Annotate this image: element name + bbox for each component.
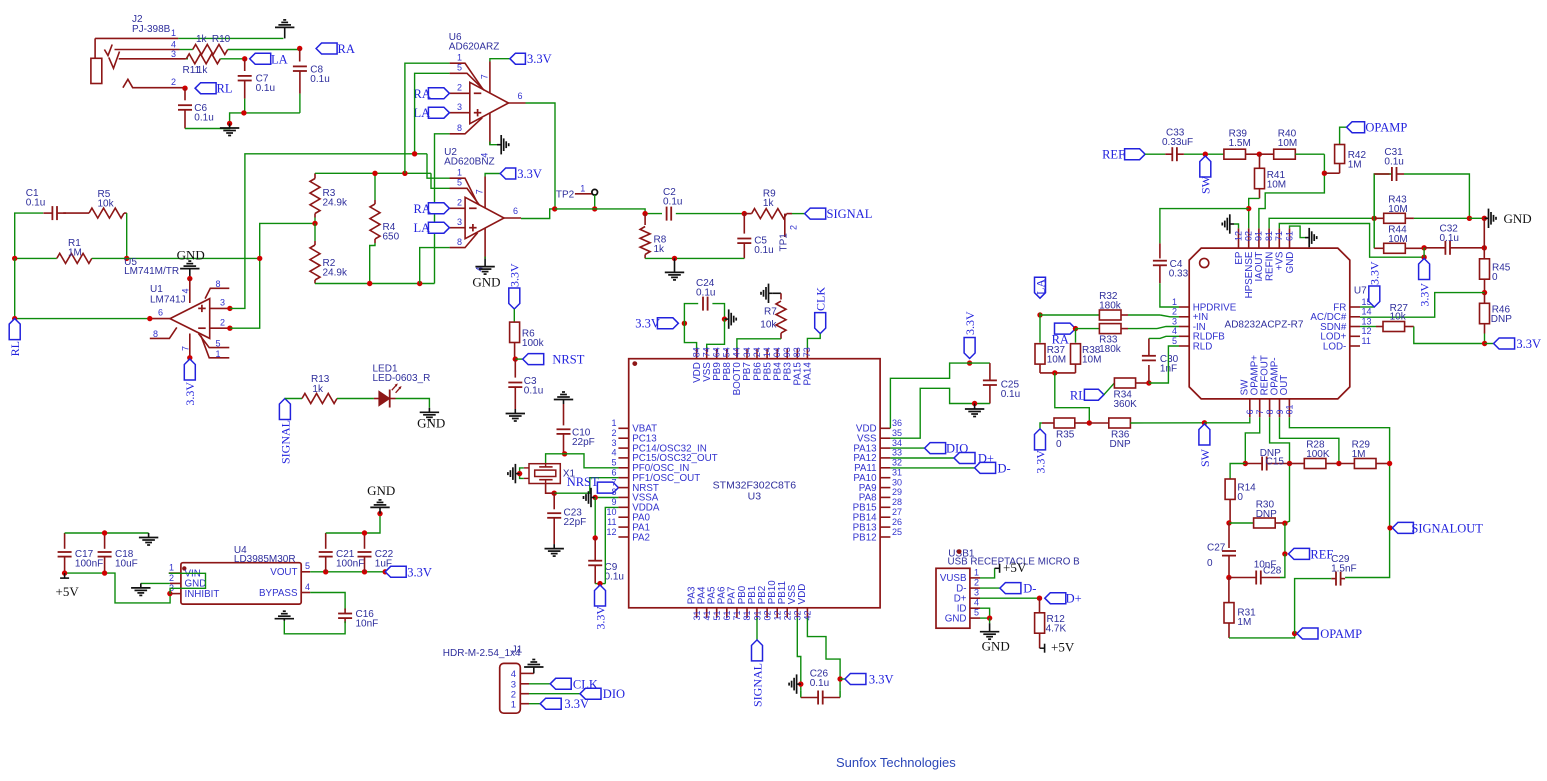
junction REF tag: [1282, 551, 1287, 556]
svg-text:24.9k: 24.9k: [323, 198, 348, 209]
junction R4 bottom: [367, 281, 372, 286]
hierarchical label D- at USB: [980, 587, 1000, 589]
junction NRST node: [513, 356, 518, 361]
junction R35/R36 node: [1087, 420, 1092, 425]
power +5V below R12: [1040, 647, 1045, 649]
svg-text:29: 29: [892, 487, 902, 497]
svg-text:0.1u: 0.1u: [663, 197, 682, 208]
U6 pin 6 output stub: [509, 102, 526, 104]
svg-text:BYPASS: BYPASS: [259, 588, 298, 599]
junction R9/C5 node: [742, 211, 747, 216]
ground left of VSSA: [595, 497, 618, 499]
U7 pin 17 +VS: [1278, 228, 1280, 248]
resistor R41 10M: [1259, 154, 1261, 168]
U3 pin 30 PA9: [880, 487, 890, 489]
svg-text:PJ-398B: PJ-398B: [132, 24, 171, 35]
junction TP2: [592, 206, 597, 211]
wire RL to R34: [1104, 383, 1115, 395]
wire GND pin5 to junction: [980, 617, 990, 619]
U3 pin 31 PA10: [880, 477, 890, 479]
wire gain network bottom: [315, 283, 435, 285]
svg-text:OUT: OUT: [1279, 375, 1290, 396]
svg-text:GND: GND: [417, 416, 445, 431]
ground below R8: [674, 258, 676, 272]
ground at J2 pin1: [284, 27, 286, 38]
svg-text:3.3V: 3.3V: [1033, 450, 1047, 474]
svg-text:PA2: PA2: [632, 532, 650, 543]
svg-text:6: 6: [518, 91, 523, 101]
svg-text:22: 22: [783, 610, 793, 620]
wire R34 node to RLD pin5: [1149, 346, 1179, 383]
wire R45/R46 node to AC/DC#: [1360, 293, 1485, 318]
svg-text:2: 2: [169, 573, 174, 583]
power label 3.3V below C32: [1419, 259, 1430, 280]
svg-text:3: 3: [220, 298, 225, 308]
svg-text:1: 1: [169, 563, 174, 573]
svg-text:SW: SW: [1198, 448, 1212, 467]
resistor R3 24.9k: [314, 173, 316, 178]
svg-text:VDD: VDD: [797, 584, 808, 605]
svg-text:LD3985M30R: LD3985M30R: [234, 554, 296, 565]
capacitor C3 0.1u: [514, 359, 516, 378]
svg-text:6: 6: [158, 308, 163, 318]
op-amp U6 AD620ARZ triangle: [470, 82, 509, 123]
ground below C23: [553, 544, 555, 549]
svg-text:73: 73: [802, 347, 812, 357]
U4 pin 3 INHIBIT: [170, 593, 181, 595]
wire U6 pin7 to 3.3V: [490, 59, 510, 62]
U1 pin 3 stub: [210, 307, 230, 309]
wire to NRST label: [515, 358, 522, 360]
resistor R9 1k: [744, 213, 751, 215]
wire CLK to PA14 pin37: [807, 334, 820, 349]
svg-text:11: 11: [1362, 336, 1371, 346]
resistor R5 10k: [63, 212, 89, 214]
svg-text:24.9k: 24.9k: [323, 268, 348, 279]
U3 pin 36 VDD: [880, 427, 890, 429]
svg-text:RL: RL: [1070, 389, 1086, 403]
test point TP1: [784, 214, 786, 237]
U2 minus symbol: [469, 207, 477, 209]
capacitor C31 0.1u: [1374, 174, 1392, 218]
junction RA node: [1073, 326, 1078, 331]
ground below C3: [514, 409, 516, 414]
junction C2/R8 node: [642, 211, 647, 216]
wire R31 to OPAMP label: [1229, 634, 1295, 638]
hierarchical label SW vertical: [1200, 156, 1211, 177]
hierarchical label D+ at USB: [1045, 593, 1066, 604]
U1 pin 4 stub: [189, 279, 191, 303]
U1 pin 2 stub: [210, 327, 230, 329]
svg-text:2: 2: [457, 198, 462, 208]
svg-text:8: 8: [457, 123, 462, 133]
junction SIGNALOUT tag: [1387, 525, 1392, 530]
svg-text:2: 2: [789, 225, 799, 230]
junction C10 bottom: [562, 451, 567, 456]
regulator U4 LD3985M30R body: [181, 563, 301, 604]
svg-text:54: 54: [722, 347, 732, 357]
LED1 arrows: [392, 385, 397, 391]
junction R45/R46: [1482, 290, 1487, 295]
U3 pin 10 PA0: [618, 516, 628, 518]
svg-text:1uF: 1uF: [375, 559, 392, 570]
svg-text:31: 31: [892, 468, 902, 478]
svg-text:11: 11: [607, 517, 616, 527]
resistor R33 180k: [1076, 328, 1100, 330]
U6 plus symbol: [474, 112, 482, 114]
svg-text:4: 4: [511, 669, 516, 680]
U4 pin 4 BYPASS: [301, 592, 310, 594]
U1 pin 1 NC: [201, 336, 229, 358]
wire VDDA to 3.3V: [605, 507, 618, 583]
wire C4 to HPDRIVE pin1: [1160, 283, 1179, 307]
svg-text:R7: R7: [764, 307, 777, 318]
svg-text:GND: GND: [1504, 211, 1532, 226]
power +5V at C17: [64, 573, 66, 578]
svg-text:10M: 10M: [1278, 138, 1297, 149]
junction RL net: [182, 86, 187, 91]
power +5V at USB: [995, 567, 1000, 569]
capacitor C4 0.33u: [1159, 243, 1161, 258]
svg-text:LM741J: LM741J: [150, 294, 186, 305]
U1 pin 6 stub: [150, 318, 170, 320]
capacitor C23 22pF: [553, 493, 555, 509]
svg-text:1k: 1k: [196, 34, 208, 45]
ground at EP: [1230, 223, 1234, 225]
svg-text:180k: 180k: [1099, 344, 1122, 355]
svg-text:4: 4: [181, 288, 191, 293]
svg-text:2: 2: [1172, 307, 1177, 317]
U2 pin 8 stub: [450, 233, 478, 248]
svg-text:12: 12: [1233, 231, 1243, 241]
svg-text:1M: 1M: [68, 248, 82, 259]
junction R4 top: [372, 171, 377, 176]
U3 pin 40 PB4: [776, 349, 778, 359]
wire C17/C18 top to ground: [65, 532, 149, 534]
U2 pin 5 stub: [450, 188, 480, 205]
wire ID to GND: [980, 608, 990, 618]
amplifier U7 AD8232ACPZ-R7 body: [1189, 248, 1350, 399]
svg-text:10M: 10M: [1388, 234, 1407, 245]
hierarchical label SIGNAL at PB1: [756, 618, 758, 640]
hierarchical label RL vertical: [9, 319, 20, 340]
svg-text:7: 7: [479, 74, 489, 79]
svg-text:4: 4: [611, 448, 616, 458]
svg-text:28: 28: [892, 497, 902, 507]
junction 3.3V east node: [1482, 341, 1487, 346]
wire R33 to -IN pin3: [1157, 327, 1179, 329]
svg-text:0: 0: [1492, 272, 1498, 283]
U6 minus symbol: [474, 92, 482, 94]
wire U1 pin3 to instrumentation amps: [230, 154, 427, 309]
svg-text:RA: RA: [338, 42, 355, 56]
svg-text:4: 4: [305, 582, 310, 592]
svg-text:INHIBIT: INHIBIT: [185, 589, 220, 600]
svg-text:22pF: 22pF: [572, 437, 595, 448]
svg-text:10M: 10M: [1267, 180, 1286, 191]
svg-text:0.1u: 0.1u: [194, 113, 213, 124]
U7 pin 3 -IN: [1179, 326, 1189, 328]
wire EP to ground: [1234, 224, 1239, 228]
U6 pin 2 stub: [450, 92, 470, 94]
wire U1 pin2 to gain divider: [230, 223, 315, 328]
svg-text:2: 2: [974, 578, 979, 588]
svg-text:7: 7: [611, 477, 616, 487]
wire TP2 to signal wire: [594, 195, 596, 209]
U3 pin 2 PC13: [618, 437, 628, 439]
junction C15 left: [1243, 461, 1248, 466]
U6 pin 4 stub: [489, 113, 491, 145]
svg-text:6: 6: [1245, 409, 1255, 414]
U3 pin 33 PA12: [880, 457, 890, 459]
wire C24 right to VSS pin47: [707, 319, 725, 349]
capacitor C2 0.1u: [666, 213, 668, 215]
ground right of C17/C18: [148, 533, 150, 538]
junction VDDA/C9 3.3V node: [595, 583, 605, 585]
U3 pin 42 PB6: [756, 349, 758, 359]
svg-text:0.1u: 0.1u: [754, 245, 773, 256]
U3 pin 20 PB2: [766, 608, 768, 618]
hierarchical label SIGNAL: [805, 208, 826, 219]
resistor R39 1.5M: [1224, 149, 1246, 159]
wire VDD pin24 to C26: [807, 618, 840, 691]
junction LA net: [242, 56, 247, 61]
wire feedback to inverting input node: [127, 257, 260, 259]
junction U1 pin3: [227, 306, 232, 311]
wire jog to U2 pin5: [431, 173, 450, 188]
svg-text:PA14: PA14: [803, 362, 814, 386]
junction SENSE node: [1246, 206, 1251, 211]
resistor R13 1k: [285, 398, 302, 400]
svg-text:0: 0: [1237, 492, 1243, 503]
svg-text:+5V: +5V: [56, 584, 80, 599]
hierarchical label LA: [250, 53, 271, 64]
svg-text:LM741M/TR: LM741M/TR: [124, 266, 179, 277]
capacitor C16 10nF: [344, 609, 346, 614]
svg-text:LA: LA: [1033, 279, 1047, 295]
wire C21/C22 top to GND: [326, 514, 380, 533]
svg-text:0.33uF: 0.33uF: [1162, 137, 1193, 148]
svg-text:RA: RA: [414, 87, 431, 101]
svg-text:LA: LA: [414, 106, 431, 120]
wire C10 to crystal: [546, 454, 565, 464]
resistor R32 180k: [1040, 314, 1100, 316]
wire crystal to OSC_OUT pin6: [546, 484, 555, 494]
junction C25 ground: [972, 401, 977, 406]
svg-text:U3: U3: [748, 491, 762, 503]
svg-text:1: 1: [1172, 297, 1177, 307]
U3 pin 4 PC15/OSC32_OUT: [618, 457, 628, 459]
wire VOUT rail: [310, 571, 385, 573]
U3 pin 19 PB1: [756, 608, 758, 618]
hierarchical label SW vertical south: [1199, 424, 1210, 445]
U7 pin 10 OUT: [1288, 399, 1290, 417]
U7 pin 18 REFIN: [1268, 228, 1270, 248]
svg-text:7: 7: [1255, 409, 1265, 414]
svg-text:01: 01: [1285, 404, 1295, 414]
resistor R42 1M: [1340, 127, 1347, 144]
wire OPAMP node to C29: [1295, 579, 1332, 634]
ground symbol above U1 pin4: [189, 269, 191, 279]
svg-text:0.1u: 0.1u: [696, 288, 715, 299]
svg-text:8: 8: [611, 487, 616, 497]
capacitor C21 100nF: [325, 533, 327, 549]
J1 pin 3 to CLK: [520, 683, 529, 685]
connector USB1 USB RECEPTACLE MICRO B body: [936, 568, 970, 628]
capacitor C22 1uF: [364, 533, 366, 549]
U3 pin 48 VDD: [696, 349, 698, 359]
resistor R45 0: [1483, 218, 1485, 259]
svg-text:DNP: DNP: [1110, 439, 1131, 450]
svg-text:0: 0: [1207, 558, 1213, 569]
resistor R2 24.9k: [314, 223, 316, 241]
junction R39/R40/R41: [1257, 152, 1262, 157]
capacitor C10 22pF: [563, 404, 565, 425]
junction SW node: [1203, 152, 1208, 157]
wire OPAMP- pin9 to R28 right: [1280, 417, 1339, 463]
svg-text:100K: 100K: [1306, 449, 1330, 460]
svg-text:1M: 1M: [1237, 617, 1251, 628]
svg-text:14: 14: [762, 347, 772, 357]
wire VSS pin35 to C25 bottom: [890, 388, 990, 438]
svg-text:02: 02: [762, 610, 772, 620]
svg-text:100k: 100k: [522, 338, 545, 349]
ground at U6 pin4: [497, 144, 501, 146]
resistor R30 DNP: [1229, 522, 1254, 524]
U3 pin 37 PA14: [806, 349, 808, 359]
U7 pin 15 FR: [1350, 306, 1360, 308]
U7 pin 14 AC/DC#: [1350, 316, 1360, 318]
wire C17/C18 bottom rail: [65, 573, 171, 603]
svg-text:3.3V: 3.3V: [963, 311, 977, 335]
U3 pin 25 PB12: [880, 536, 890, 538]
junction C7 bottom: [241, 110, 246, 115]
U3 pin 1 VBAT: [618, 427, 628, 429]
wire C1/R5 branch: [15, 213, 44, 258]
svg-text:SIGNALOUT: SIGNALOUT: [1411, 521, 1483, 535]
U3 pin 11 PA1: [618, 526, 628, 528]
svg-text:0.1u: 0.1u: [256, 83, 275, 94]
resistor R44 10M: [1373, 218, 1375, 248]
ground above C16 return: [283, 619, 285, 621]
ground above R7: [773, 292, 781, 294]
junction R14/R30/C27: [1226, 520, 1231, 525]
svg-text:36: 36: [892, 418, 902, 428]
resistor R10 1k: [180, 49, 193, 51]
wire to SW pin6: [1204, 417, 1249, 423]
wire C6 to ground junction: [185, 113, 300, 129]
svg-text:1: 1: [457, 167, 462, 177]
U7 pin 7 OPAMP+: [1259, 399, 1261, 417]
U3 pin 45 PB8: [726, 349, 728, 359]
U1 pin 7 stub: [189, 334, 191, 358]
U1 pin 8 NC bottom left: [150, 327, 177, 338]
resistor R38 10M: [1075, 329, 1077, 343]
resistor R1 1M: [15, 257, 57, 259]
svg-text:3.3V: 3.3V: [635, 316, 660, 330]
svg-text:GND: GND: [945, 613, 967, 624]
svg-text:1: 1: [511, 699, 516, 710]
wire VSSA to C9: [594, 498, 596, 539]
svg-text:D-: D-: [998, 461, 1011, 475]
U3 pin 38 PA15: [796, 349, 798, 359]
U6 pin 5 stub: [450, 73, 485, 90]
svg-text:1: 1: [580, 184, 585, 194]
crystal X1: [529, 464, 560, 484]
U7 pin 8 REFOUT: [1269, 399, 1271, 417]
U7 pin 9 OPAMP-: [1279, 399, 1281, 417]
svg-text:3: 3: [457, 102, 462, 112]
wire C24 left to VDD pin48: [684, 323, 696, 348]
svg-text:SIGNAL: SIGNAL: [827, 207, 873, 221]
junction C27/C28/R31: [1226, 575, 1231, 580]
junction U1 pin7: [187, 355, 192, 360]
ground above J1 pin4: [533, 667, 535, 673]
U3 pin 17 PA7: [736, 608, 738, 618]
USB1 pin 3 D+: [970, 597, 980, 599]
capacitor C17 100nF: [64, 533, 66, 549]
svg-text:5: 5: [305, 561, 310, 571]
svg-text:4: 4: [974, 598, 979, 608]
resistor R34 360K: [1114, 378, 1135, 388]
ground at U2 pin4: [484, 259, 486, 267]
svg-text:14: 14: [1362, 307, 1372, 317]
USB1 pin 4 ID: [970, 607, 980, 609]
U6 pin 3 stub: [450, 112, 470, 114]
U3 pin 15 PA5: [716, 608, 718, 618]
svg-text:61: 61: [1284, 231, 1294, 241]
svg-text:180k: 180k: [1099, 300, 1122, 311]
capacitor C24 0.1u: [684, 304, 698, 324]
svg-text:64: 64: [712, 347, 722, 357]
capacitor C8 0.1u: [299, 49, 301, 62]
wire C33 to SW node: [1184, 153, 1224, 155]
U1 minus symbol: [198, 327, 206, 329]
resistor R27 10k: [1376, 326, 1383, 328]
svg-text:10k: 10k: [98, 199, 115, 210]
svg-text:2: 2: [171, 77, 176, 87]
wire left rail to U1 output: [15, 258, 150, 318]
microcontroller U3 STM32F302C8T6 body: [629, 359, 880, 608]
svg-text:D-: D-: [1023, 582, 1036, 596]
wire R14 top branch: [1230, 464, 1245, 480]
resistor R28 100K: [1290, 463, 1305, 465]
hierarchical label CLK at J1: [550, 678, 571, 689]
U7 pin 1 HPDRIVE: [1179, 306, 1189, 308]
capacitor C1 0.1u: [43, 212, 52, 214]
op-amp U2 AD620BNZ triangle: [465, 197, 504, 238]
svg-text:10M: 10M: [1082, 355, 1101, 366]
U2 pin 7 stub: [484, 177, 486, 208]
svg-text:OPAMP: OPAMP: [1320, 627, 1362, 641]
svg-text:1: 1: [974, 567, 979, 577]
junction LA node: [1037, 312, 1042, 317]
hierarchical label RA at R33: [1055, 323, 1076, 334]
junction 3.3V C25: [967, 360, 972, 365]
svg-text:3: 3: [974, 588, 979, 598]
svg-text:650: 650: [383, 232, 400, 243]
power label 3.3V below R35: [1040, 423, 1042, 429]
U3 pin 32 PA11: [880, 467, 890, 469]
svg-text:3: 3: [1172, 316, 1177, 326]
U2 pin 6 output stub: [504, 217, 521, 219]
hierarchical label SIGNAL vertical at R13: [279, 399, 290, 420]
svg-text:3.3V: 3.3V: [407, 565, 432, 579]
svg-text:DNP: DNP: [1256, 509, 1277, 520]
svg-text:27: 27: [892, 507, 902, 517]
hierarchical label DIO at PA13: [890, 447, 924, 449]
resistor R11 1k: [186, 58, 188, 60]
